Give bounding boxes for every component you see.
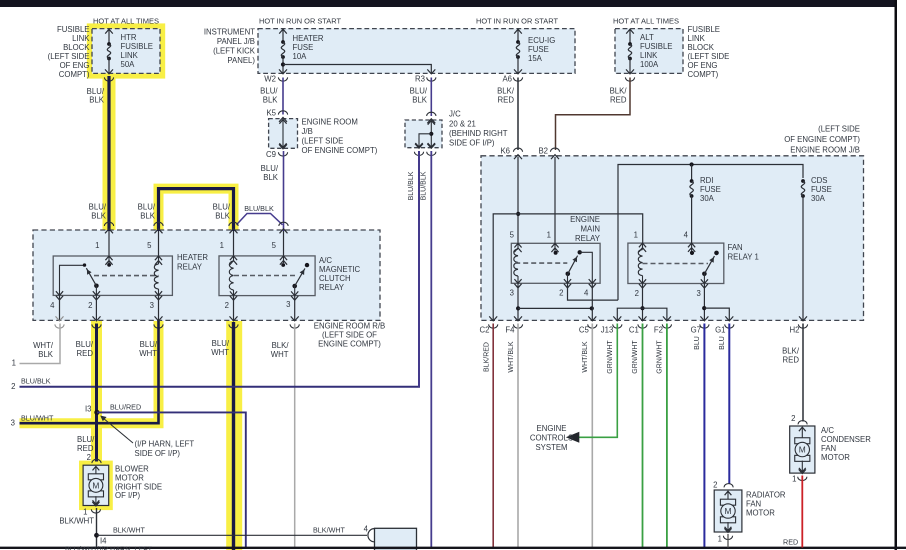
- fan relay pin1 entry: [639, 243, 646, 247]
- R/B entry pin1: [104, 222, 113, 226]
- A/C relay pin5 entry: [280, 256, 287, 260]
- ALT fusible link block box: [615, 29, 683, 74]
- svg-text:SYSTEM: SYSTEM: [535, 443, 567, 452]
- circuit 3 line BLU/WHT: [20, 321, 159, 423]
- A/C relay pin1 entry: [230, 256, 237, 260]
- R/B entry pin5: [154, 222, 163, 226]
- junction dot K6 branch: [516, 212, 520, 216]
- circuit 2 line BLU/BLK: [20, 151, 420, 387]
- svg-text:M: M: [92, 480, 99, 490]
- svg-text:2: 2: [11, 382, 15, 391]
- main relay linkage dashed: [515, 262, 567, 264]
- svg-text:2: 2: [713, 481, 717, 490]
- svg-text:5: 5: [147, 241, 152, 250]
- fan relay fixed contact: [714, 251, 719, 256]
- engine room R/B box: [33, 230, 380, 320]
- svg-text:BLU/: BLU/: [77, 435, 95, 444]
- svg-text:WHT: WHT: [139, 349, 157, 358]
- svg-text:30A: 30A: [811, 194, 826, 203]
- ALT fusible link feed arrow: [629, 30, 631, 44]
- junction dot heater fuse branch: [281, 62, 285, 66]
- svg-text:BLU/BLK: BLU/BLK: [421, 171, 428, 200]
- A6 exit connector: [514, 69, 522, 74]
- main relay fixed contact: [578, 250, 582, 254]
- svg-text:M: M: [799, 445, 806, 455]
- junction I4: [94, 533, 99, 538]
- svg-text:FAN: FAN: [821, 444, 836, 453]
- svg-text:BLK/: BLK/: [782, 347, 800, 356]
- C5 exit connector: [588, 316, 596, 321]
- main relay pin2 exit: [564, 279, 571, 283]
- svg-text:CONTROLS: CONTROLS: [530, 434, 573, 443]
- svg-text:(BEHIND RIGHT: (BEHIND RIGHT: [449, 129, 508, 138]
- svg-text:4: 4: [684, 231, 689, 240]
- svg-text:MOTOR: MOTOR: [746, 509, 775, 518]
- svg-text:BLU/: BLU/: [76, 340, 94, 349]
- HTR fusible link feed arrow: [108, 30, 110, 44]
- svg-text:15A: 15A: [528, 54, 543, 63]
- main relay coil: [517, 243, 519, 249]
- main relay pin1 entry: [551, 243, 558, 247]
- svg-text:1: 1: [83, 508, 87, 517]
- svg-text:1: 1: [634, 231, 638, 240]
- J13 exit connector: [613, 316, 621, 321]
- R/B entry AC pin1: [229, 222, 238, 226]
- svg-text:B2: B2: [538, 147, 548, 156]
- wire H2 BLK/RED to condenser fan: [802, 324, 804, 422]
- svg-text:1: 1: [792, 475, 796, 484]
- svg-text:HOT AT ALL TIMES: HOT AT ALL TIMES: [93, 19, 159, 26]
- R/B entry AC pin5: [279, 222, 288, 226]
- wire BLU/RED pin2 to blower: [95, 324, 98, 462]
- wire main pin2 to RDI vertical: [568, 284, 619, 301]
- ALT exit connector: [626, 69, 634, 74]
- svg-text:RED: RED: [498, 96, 515, 105]
- radiator fan exit connector: [724, 528, 731, 532]
- HTR fusible link lower lead: [108, 59, 110, 74]
- svg-text:WHT: WHT: [211, 348, 229, 357]
- heater relay pin4 path: [60, 265, 85, 295]
- junction dot C1: [640, 306, 644, 310]
- radiator fan entry connector: [724, 484, 733, 488]
- fan relay pin4 entry: [688, 243, 695, 247]
- wire R3 to J/C: [430, 78, 432, 117]
- svg-text:J/B: J/B: [302, 127, 313, 136]
- CDS fuse: [801, 179, 805, 183]
- heater fuse feed arrow: [282, 30, 284, 42]
- wire G1 BLU to radiator fan: [728, 324, 730, 485]
- ALT fusible link lower lead: [629, 59, 631, 74]
- main relay switch arm: [566, 272, 571, 277]
- J/C junction connector box: [405, 120, 442, 148]
- svg-text:20 & 21: 20 & 21: [449, 120, 476, 129]
- svg-text:MAIN: MAIN: [581, 225, 601, 234]
- svg-text:(LEFT SIDE: (LEFT SIDE: [302, 137, 344, 146]
- heater relay pin2 exit: [93, 291, 100, 295]
- ECU-IG fuse feed arrow: [517, 30, 519, 42]
- wire AC pin5 inside R/B: [283, 231, 285, 256]
- fan relay coil: [642, 243, 644, 249]
- svg-text:BLK: BLK: [412, 96, 428, 105]
- svg-text:FUSIBLE: FUSIBLE: [57, 25, 90, 34]
- svg-text:CLUTCH: CLUTCH: [319, 274, 351, 283]
- wire pin1 inside R/B: [108, 231, 110, 256]
- svg-text:1: 1: [718, 535, 722, 544]
- svg-text:INSTRUMENT: INSTRUMENT: [204, 28, 255, 37]
- svg-text:FUSE: FUSE: [700, 185, 721, 194]
- svg-text:RED: RED: [783, 538, 798, 547]
- C2 exit connector: [489, 316, 497, 321]
- wire fan pin2 to C1: [642, 284, 644, 320]
- svg-text:RADIATOR: RADIATOR: [746, 491, 786, 500]
- right page border: [895, 0, 898, 550]
- heater relay pin3 exit: [155, 291, 162, 295]
- wire BLU/BLK main feed: [107, 76, 110, 231]
- svg-text:A/C: A/C: [319, 256, 332, 265]
- wire C5 WHT/BLK: [591, 324, 593, 548]
- svg-text:C2: C2: [480, 326, 490, 335]
- wire heater pin4 stub: [59, 295, 61, 320]
- svg-text:BLU/BLK: BLU/BLK: [408, 171, 415, 200]
- wire BLU/BLK bridge: [159, 189, 234, 231]
- wire CDS fuse to H2: [802, 196, 804, 320]
- svg-text:BLU: BLU: [719, 336, 726, 350]
- main relay pin3 exit: [514, 279, 521, 283]
- bottom bus line: [0, 547, 906, 549]
- svg-text:WHT/BLK: WHT/BLK: [508, 341, 515, 372]
- svg-text:(LEFT SIDE: (LEFT SIDE: [688, 52, 730, 61]
- svg-text:SIDE OF I/P): SIDE OF I/P): [449, 139, 495, 148]
- svg-text:2: 2: [87, 453, 91, 462]
- svg-text:BLK/WHT: BLK/WHT: [59, 517, 94, 526]
- top page border bar: [0, 0, 897, 7]
- A/C magnetic clutch relay box: [219, 256, 315, 296]
- J/C left exit connector: [415, 144, 423, 149]
- bottom connector box: [375, 528, 417, 550]
- svg-text:HTR: HTR: [121, 33, 137, 42]
- svg-text:BLU/: BLU/: [213, 203, 231, 212]
- svg-text:WHT/BLK: WHT/BLK: [582, 341, 589, 372]
- wire condenser fan RED to bus: [801, 476, 803, 548]
- svg-text:BLU/: BLU/: [212, 339, 230, 348]
- A/C relay pin3 lead: [294, 286, 296, 296]
- wire G7 BLU: [703, 324, 705, 548]
- svg-text:RED: RED: [610, 96, 627, 105]
- wire J13-F2 tie: [617, 308, 667, 320]
- main relay pin5 entry: [514, 243, 521, 247]
- A/C relay coil: [233, 256, 235, 261]
- svg-text:BLK/WHT: BLK/WHT: [113, 526, 146, 535]
- wire fan pin3 to G7: [703, 284, 705, 320]
- wire heater pin2 stub: [95, 295, 97, 320]
- fan relay pin4 contact: [691, 243, 693, 251]
- wire blower to I4: [96, 508, 98, 548]
- R/B exit ACpin3: [291, 316, 299, 321]
- svg-text:ENGINE ROOM J/B: ENGINE ROOM J/B: [790, 146, 860, 155]
- svg-text:PANEL): PANEL): [227, 56, 255, 65]
- svg-text:OF I/P): OF I/P): [115, 491, 141, 500]
- wire C1 GRN/WHT: [642, 324, 644, 548]
- wire B2 to main relay pin1: [554, 157, 556, 243]
- A/C relay switch arm: [292, 284, 297, 289]
- wire C9 to A/C relay pin5: [283, 151, 285, 231]
- svg-text:GRN/WHT: GRN/WHT: [657, 340, 664, 374]
- R/B exit pin3: [155, 316, 163, 321]
- svg-text:LINK: LINK: [121, 51, 139, 60]
- svg-text:4: 4: [50, 301, 55, 310]
- svg-text:OF ENG: OF ENG: [60, 61, 90, 70]
- svg-text:RELAY 1: RELAY 1: [728, 253, 759, 262]
- heater relay linkage dashed: [94, 275, 159, 277]
- wire W2 to K5: [282, 78, 284, 115]
- svg-text:GRN/WHT: GRN/WHT: [632, 340, 639, 374]
- svg-text:RED: RED: [783, 356, 800, 365]
- svg-text:BLOCK: BLOCK: [63, 43, 90, 52]
- svg-text:M: M: [725, 506, 732, 516]
- svg-text:2: 2: [225, 301, 229, 310]
- svg-text:K5: K5: [266, 109, 276, 118]
- heater fuse: [281, 40, 285, 44]
- svg-text:FAN: FAN: [728, 243, 743, 252]
- svg-text:MOTOR: MOTOR: [821, 453, 850, 462]
- K5-C9 engine room J/B box: [269, 119, 298, 149]
- svg-text:BLK: BLK: [263, 96, 279, 105]
- svg-text:BLU/: BLU/: [140, 340, 158, 349]
- junction dot C5: [590, 306, 594, 310]
- svg-text:RED: RED: [77, 444, 94, 453]
- svg-text:BLK: BLK: [89, 96, 105, 105]
- svg-text:C1: C1: [629, 326, 639, 335]
- svg-text:(LEFT SIDE: (LEFT SIDE: [48, 52, 90, 61]
- main relay pin2 lead: [567, 274, 569, 284]
- A/C relay fixed contact: [305, 263, 309, 267]
- svg-text:1: 1: [547, 231, 551, 240]
- fusible link block box (HTR): [92, 29, 160, 74]
- wire A6 to K6: [517, 78, 519, 151]
- K5 entry connector: [278, 111, 287, 115]
- condenser fan entry connector: [798, 421, 807, 425]
- H2 exit connector: [799, 316, 807, 321]
- wire K6 branch to C2 and fan pin1: [493, 214, 643, 320]
- heater relay switch arm: [94, 284, 99, 289]
- K6 entry connector: [513, 148, 522, 152]
- G7 exit connector: [700, 316, 708, 321]
- engine room J/B box: [481, 156, 864, 321]
- svg-text:FUSIBLE: FUSIBLE: [688, 25, 721, 34]
- RDI fuse lead: [691, 165, 693, 182]
- A/C relay linkage dashed: [234, 275, 297, 277]
- wire radiator fan to bus: [727, 534, 729, 548]
- svg-text:J/C: J/C: [449, 110, 461, 119]
- svg-text:HOT AT ALL TIMES: HOT AT ALL TIMES: [613, 19, 679, 26]
- heater relay pin1 contact: [108, 256, 110, 263]
- svg-text:RELAY: RELAY: [177, 263, 203, 272]
- fan relay switch arm: [702, 272, 707, 277]
- svg-text:C9: C9: [266, 150, 276, 159]
- B2 entry connector: [550, 148, 559, 152]
- wire C2 BLK/RED: [492, 324, 494, 548]
- C9 exit connector: [279, 144, 287, 149]
- wire F2 GRN/WHT: [666, 324, 668, 548]
- svg-text:W2: W2: [264, 75, 276, 84]
- heater relay coil: [158, 256, 160, 264]
- F4 exit connector: [514, 316, 522, 321]
- svg-text:3: 3: [286, 300, 290, 309]
- svg-text:BLK/: BLK/: [272, 341, 290, 350]
- wire RDI/CDS feed: [618, 165, 803, 301]
- svg-text:2: 2: [559, 289, 563, 298]
- svg-text:RED: RED: [77, 349, 94, 358]
- svg-text:RDI: RDI: [700, 176, 713, 185]
- svg-text:(LEFT SIDE OF: (LEFT SIDE OF: [322, 331, 377, 340]
- wire I4 BLK/WHT to connector 4: [97, 534, 368, 536]
- svg-text:FUSE: FUSE: [811, 185, 832, 194]
- svg-text:10A: 10A: [293, 52, 308, 61]
- svg-text:2: 2: [635, 289, 639, 298]
- svg-text:FUSIBLE: FUSIBLE: [640, 42, 673, 51]
- svg-text:MOTOR: MOTOR: [115, 474, 144, 483]
- svg-text:BLK/RED: BLK/RED: [483, 342, 490, 372]
- R/B exit pin4: [56, 316, 64, 321]
- junction I3: [94, 410, 99, 415]
- svg-text:BLU/WHT: BLU/WHT: [21, 413, 54, 422]
- svg-text:SIDE OF I/P): SIDE OF I/P): [135, 449, 181, 458]
- junction dot G7: [702, 306, 706, 310]
- svg-text:BLK/: BLK/: [497, 87, 515, 96]
- svg-text:K6: K6: [500, 147, 510, 156]
- K5 box internal wire: [282, 121, 284, 148]
- R3 exit connector: [427, 69, 435, 74]
- condenser fan exit connector: [799, 469, 806, 473]
- F2 exit connector: [663, 316, 671, 321]
- J/C entry connector: [427, 112, 436, 116]
- heater relay pin5 entry: [155, 256, 162, 260]
- svg-text:C5: C5: [579, 326, 590, 335]
- svg-text:BLOCK: BLOCK: [688, 43, 715, 52]
- svg-text:50A: 50A: [121, 60, 136, 69]
- svg-text:OF ENGINE COMPT): OF ENGINE COMPT): [784, 135, 860, 144]
- heater relay pin4 exit: [56, 291, 63, 295]
- svg-text:1: 1: [220, 241, 224, 250]
- svg-text:HEATER: HEATER: [293, 34, 324, 43]
- fan relay linkage dashed: [643, 263, 709, 265]
- wire A/C pin2 BLU/WHT down: [232, 322, 235, 550]
- svg-text:H2: H2: [790, 326, 800, 335]
- C1 exit connector: [639, 316, 647, 321]
- svg-text:A/C: A/C: [821, 426, 834, 435]
- svg-text:BLU/: BLU/: [89, 203, 107, 212]
- svg-text:COMPT): COMPT): [59, 70, 90, 79]
- wire I3 branch BLU/RED: [97, 412, 246, 547]
- svg-text:BLU/RED: BLU/RED: [110, 403, 141, 412]
- main relay pin1 contact: [554, 243, 556, 251]
- svg-text:ENGINE: ENGINE: [570, 215, 600, 224]
- svg-text:5: 5: [272, 241, 277, 250]
- svg-text:(LEFT SIDE: (LEFT SIDE: [818, 125, 860, 134]
- svg-text:BLU/: BLU/: [410, 87, 428, 96]
- svg-text:1: 1: [95, 241, 99, 250]
- A/C relay pin3 exit: [291, 291, 298, 295]
- engine main relay U2 box: [511, 243, 600, 283]
- svg-text:WHT: WHT: [271, 350, 289, 359]
- svg-text:G1: G1: [715, 326, 725, 335]
- W2 exit connector: [279, 69, 287, 74]
- wire F4 WHT/BLK: [517, 324, 519, 548]
- heater relay box: [53, 256, 172, 295]
- fan relay pin3 exit: [701, 279, 708, 283]
- svg-text:FAN: FAN: [746, 500, 761, 509]
- HTR fusible link F1: [107, 42, 111, 46]
- svg-text:1: 1: [12, 359, 16, 368]
- svg-text:4: 4: [364, 525, 369, 534]
- svg-text:J13: J13: [601, 326, 614, 335]
- R/B exit ACpin2: [230, 316, 238, 321]
- heater fuse lower lead: [282, 57, 284, 73]
- engine controls arrowhead: [566, 432, 580, 443]
- svg-text:BLK: BLK: [140, 212, 156, 221]
- wire BLU/BLK jog to C9: [237, 214, 283, 225]
- svg-text:CONDENSER: CONDENSER: [821, 435, 871, 444]
- svg-text:R3: R3: [415, 75, 425, 84]
- wire RDI fuse to fan pin4: [691, 196, 693, 243]
- instrument panel J/B box: [258, 29, 575, 74]
- R/B exit pin2: [93, 316, 101, 321]
- svg-text:BLU/BLK: BLU/BLK: [21, 377, 51, 386]
- wire heater fuse to R3: [283, 65, 431, 74]
- heater relay pin2 lead: [95, 286, 97, 296]
- radiator fan motor M2: [714, 490, 742, 532]
- wire main pin4 to C5: [591, 284, 593, 321]
- svg-text:2: 2: [88, 301, 92, 310]
- heater relay pin1 entry: [105, 256, 112, 260]
- svg-text:5: 5: [510, 231, 515, 240]
- blower entry connector: [92, 459, 101, 463]
- svg-text:BLK: BLK: [38, 350, 54, 359]
- svg-text:ENGINE ROOM: ENGINE ROOM: [302, 118, 358, 127]
- svg-text:BLU/: BLU/: [261, 164, 279, 173]
- svg-text:FUSIBLE: FUSIBLE: [121, 42, 154, 51]
- junction dot F4: [516, 306, 520, 310]
- svg-text:G7: G7: [691, 326, 701, 335]
- HTR fusible link exit connector: [105, 69, 113, 74]
- svg-text:OF ENG: OF ENG: [688, 61, 718, 70]
- svg-text:BLK: BLK: [91, 212, 107, 221]
- svg-text:CDS: CDS: [811, 176, 827, 185]
- svg-text:RELAY: RELAY: [575, 234, 601, 243]
- A/C condenser fan motor M3: [790, 426, 815, 473]
- svg-text:LINK: LINK: [72, 34, 90, 43]
- svg-text:ENGINE COMPT): ENGINE COMPT): [318, 340, 381, 349]
- svg-text:FUSE: FUSE: [528, 45, 549, 54]
- circuit 1 line WHT/BLK: [20, 324, 61, 364]
- svg-text:LINK: LINK: [688, 34, 706, 43]
- svg-text:HOT IN RUN OR START: HOT IN RUN OR START: [476, 19, 559, 26]
- svg-text:A6: A6: [502, 75, 512, 84]
- wire A/C pin3 BLK/WHT down: [294, 324, 296, 548]
- svg-text:I3: I3: [85, 405, 92, 414]
- svg-text:(LEFT KICK: (LEFT KICK: [213, 47, 256, 56]
- svg-text:MAGNETIC: MAGNETIC: [319, 265, 361, 274]
- svg-text:BLU/: BLU/: [260, 87, 278, 96]
- wire J13 GRN/WHT to engine controls: [579, 324, 618, 438]
- svg-text:3: 3: [697, 289, 701, 298]
- wire A/C pin2 stub: [233, 296, 235, 320]
- svg-text:BLU/WHT: BLU/WHT: [65, 545, 98, 550]
- svg-text:BLU/BLK: BLU/BLK: [244, 204, 274, 213]
- svg-text:(I/P HARN, LEFT: (I/P HARN, LEFT: [135, 440, 195, 449]
- main relay pin4 exit: [589, 279, 596, 283]
- svg-text:30A: 30A: [700, 194, 715, 203]
